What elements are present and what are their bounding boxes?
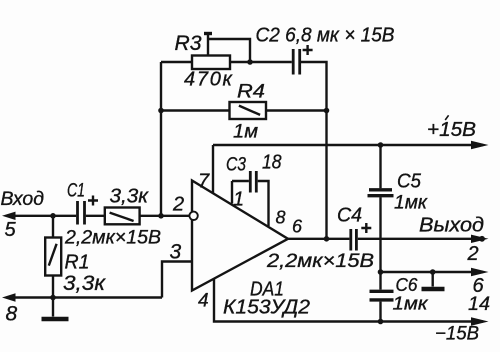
svg-text:4: 4: [198, 291, 209, 312]
svg-text:C6: C6: [396, 275, 419, 295]
svg-text:18: 18: [262, 152, 282, 174]
svg-text:3: 3: [170, 241, 182, 264]
svg-text:14: 14: [468, 293, 490, 315]
svg-text:2: 2: [172, 194, 184, 216]
svg-text:R4: R4: [237, 82, 265, 103]
svg-text:Вход: Вход: [1, 189, 45, 210]
svg-text:C2 6,8 мк × 15В: C2 6,8 мк × 15В: [256, 25, 395, 47]
svg-text:2: 2: [467, 243, 479, 265]
svg-text:C4: C4: [337, 205, 362, 227]
svg-text:R1: R1: [65, 252, 90, 274]
svg-text:5: 5: [5, 219, 17, 241]
svg-text:C3: C3: [226, 155, 246, 176]
svg-text:2,2мк×15В: 2,2мк×15В: [266, 250, 374, 272]
svg-text:−15В: −15В: [435, 324, 479, 345]
svg-text:+15В: +15В: [427, 119, 476, 141]
svg-text:1м: 1м: [233, 122, 258, 143]
svg-text:1мк: 1мк: [394, 193, 428, 214]
svg-text:2,2мк×15В: 2,2мк×15В: [64, 228, 161, 249]
svg-text:К153УД2: К153УД2: [223, 297, 310, 319]
svg-text:7: 7: [198, 171, 210, 193]
svg-text:8: 8: [276, 208, 286, 228]
svg-text:R3: R3: [175, 32, 202, 55]
svg-text:6: 6: [292, 217, 303, 237]
svg-text:1мк: 1мк: [393, 294, 430, 314]
svg-text:1: 1: [233, 189, 244, 211]
svg-text:C5: C5: [397, 171, 422, 193]
svg-text:3,3к: 3,3к: [63, 272, 106, 295]
svg-text:470к: 470к: [184, 69, 234, 91]
svg-text:8: 8: [6, 303, 18, 326]
svg-text:3,3к: 3,3к: [110, 186, 150, 208]
svg-text:Выход: Выход: [419, 215, 484, 237]
svg-text:C1: C1: [67, 181, 85, 202]
